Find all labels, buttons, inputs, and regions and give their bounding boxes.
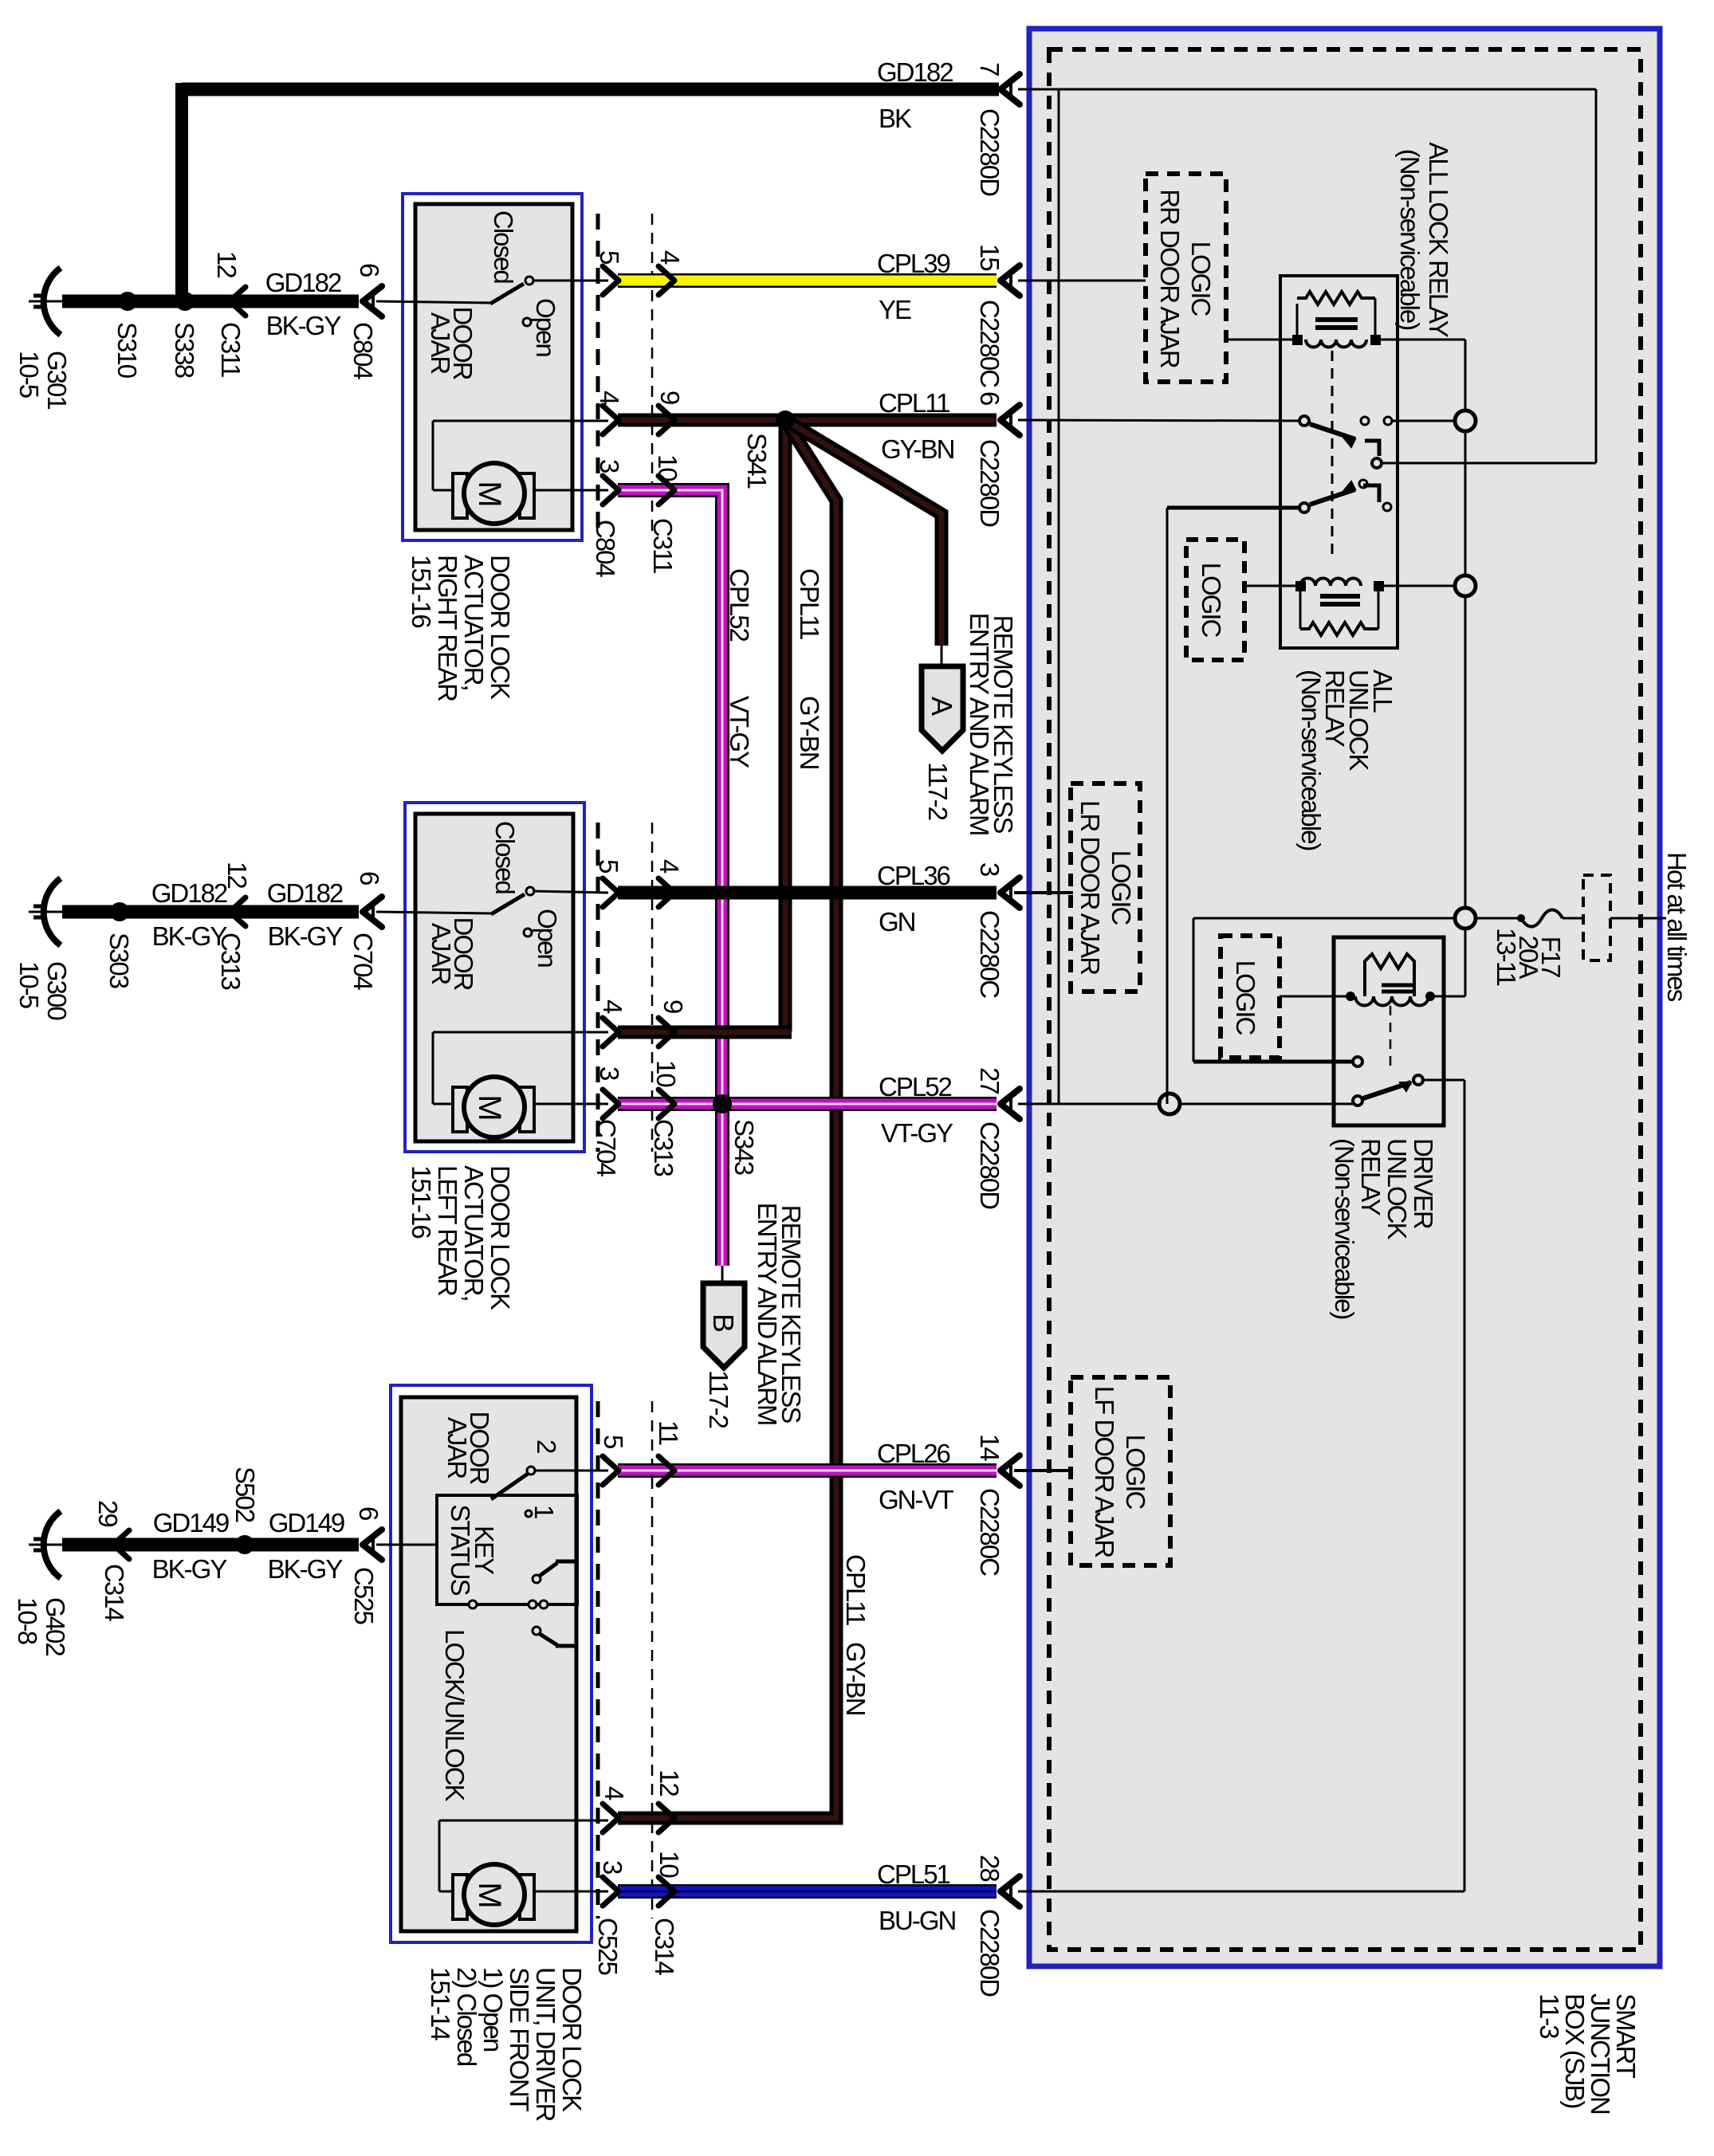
svg-text:C313: C313: [649, 1119, 678, 1176]
svg-text:AJAR: AJAR: [427, 923, 456, 985]
svg-text:BK-GY: BK-GY: [268, 1554, 344, 1584]
svg-text:C2280C: C2280C: [975, 1488, 1004, 1576]
svg-text:C2280C: C2280C: [975, 910, 1004, 998]
svg-text:1: 1: [529, 1505, 559, 1518]
svg-text:S343: S343: [729, 1119, 759, 1175]
svg-text:C2280C: C2280C: [975, 300, 1004, 387]
svg-text:4: 4: [595, 391, 624, 405]
svg-text:C311: C311: [216, 322, 246, 377]
svg-text:10-5: 10-5: [14, 961, 44, 1008]
svg-text:CPL39: CPL39: [877, 249, 950, 278]
svg-text:6: 6: [355, 263, 384, 277]
svg-text:C525: C525: [593, 1918, 623, 1975]
svg-text:151-14: 151-14: [426, 1967, 455, 2040]
svg-text:27: 27: [975, 1067, 1004, 1094]
svg-text:6: 6: [355, 871, 384, 885]
svg-text:BU-GN: BU-GN: [879, 1906, 956, 1935]
svg-text:DOOR LOCK: DOOR LOCK: [486, 555, 515, 700]
svg-text:VT-GY: VT-GY: [881, 1118, 953, 1148]
svg-text:Open: Open: [533, 909, 562, 967]
svg-text:BK: BK: [879, 104, 912, 133]
svg-text:G301: G301: [42, 351, 72, 409]
svg-text:S502: S502: [230, 1467, 260, 1522]
svg-text:B: B: [707, 1314, 740, 1332]
svg-text:GD182: GD182: [151, 878, 227, 908]
svg-text:GY-BN: GY-BN: [881, 434, 954, 464]
svg-text:28: 28: [975, 1855, 1004, 1881]
svg-text:LEFT REAR: LEFT REAR: [433, 1165, 462, 1296]
svg-text:RR DOOR AJAR: RR DOOR AJAR: [1155, 189, 1185, 368]
svg-text:UNLOCK: UNLOCK: [1382, 1138, 1412, 1240]
svg-text:GD182: GD182: [877, 57, 953, 87]
svg-text:LOCK/UNLOCK: LOCK/UNLOCK: [440, 1629, 470, 1802]
svg-text:CPL36: CPL36: [877, 861, 950, 890]
svg-text:12: 12: [222, 862, 252, 888]
svg-text:AJAR: AJAR: [426, 312, 455, 375]
svg-text:LOGIC: LOGIC: [1186, 242, 1216, 316]
svg-text:4: 4: [655, 250, 685, 265]
svg-text:CPL52: CPL52: [879, 1072, 952, 1102]
svg-text:117-2: 117-2: [704, 1370, 733, 1428]
svg-text:GY-BN: GY-BN: [795, 696, 824, 769]
svg-text:10-8: 10-8: [13, 1597, 42, 1644]
svg-text:1) Open: 1) Open: [478, 1967, 508, 2052]
svg-text:C314: C314: [650, 1918, 679, 1976]
svg-text:2: 2: [532, 1439, 561, 1453]
svg-text:9: 9: [658, 999, 688, 1013]
svg-text:GN-VT: GN-VT: [879, 1485, 954, 1514]
svg-text:CPL51: CPL51: [877, 1860, 950, 1889]
svg-text:S310: S310: [112, 322, 142, 379]
svg-text:5: 5: [595, 250, 624, 264]
svg-text:(Non-serviceable): (Non-serviceable): [1296, 670, 1326, 850]
svg-text:15: 15: [975, 244, 1004, 270]
svg-text:12: 12: [655, 1769, 684, 1796]
svg-text:10-5: 10-5: [14, 351, 44, 398]
svg-text:C314: C314: [100, 1564, 129, 1622]
svg-text:C2280D: C2280D: [975, 1909, 1004, 1997]
svg-text:2) Closed: 2) Closed: [452, 1967, 482, 2066]
svg-text:CPL11: CPL11: [879, 388, 949, 418]
svg-text:4: 4: [600, 1786, 629, 1801]
svg-text:C2280D: C2280D: [975, 108, 1004, 196]
svg-text:M: M: [472, 481, 507, 505]
svg-text:10: 10: [655, 1851, 684, 1878]
svg-text:YE: YE: [879, 295, 911, 324]
svg-text:151-16: 151-16: [407, 555, 436, 627]
svg-text:BK-GY: BK-GY: [152, 1554, 228, 1584]
svg-text:C311: C311: [648, 518, 678, 573]
svg-text:A: A: [926, 697, 958, 716]
svg-text:Closed: Closed: [489, 210, 518, 283]
svg-text:C2280D: C2280D: [975, 1121, 1004, 1209]
svg-text:C313: C313: [216, 933, 246, 990]
svg-text:DOOR LOCK: DOOR LOCK: [486, 1165, 515, 1310]
svg-text:BK-GY: BK-GY: [268, 921, 344, 951]
svg-text:ENTRY AND ALARM: ENTRY AND ALARM: [753, 1203, 782, 1425]
svg-text:DRIVER: DRIVER: [1409, 1138, 1438, 1229]
svg-text:Closed: Closed: [490, 821, 520, 893]
svg-text:151-16: 151-16: [407, 1165, 436, 1238]
svg-text:RIGHT REAR: RIGHT REAR: [433, 555, 462, 701]
svg-text:11-3: 11-3: [1535, 1993, 1564, 2038]
svg-text:DOOR LOCK: DOOR LOCK: [557, 1967, 587, 2112]
svg-text:GD182: GD182: [267, 878, 343, 908]
svg-text:SIDE FRONT: SIDE FRONT: [505, 1967, 534, 2112]
svg-text:G300: G300: [42, 961, 72, 1020]
svg-text:3: 3: [595, 1066, 624, 1080]
svg-text:S338: S338: [170, 322, 199, 378]
svg-text:(Non-serviceable): (Non-serviceable): [1330, 1138, 1359, 1318]
svg-text:3: 3: [598, 1860, 627, 1874]
svg-text:LF DOOR AJAR: LF DOOR AJAR: [1090, 1386, 1119, 1558]
svg-text:11: 11: [654, 1420, 683, 1445]
svg-text:4: 4: [598, 999, 627, 1014]
svg-text:13-11: 13-11: [1492, 928, 1521, 986]
svg-text:117-2: 117-2: [923, 762, 953, 820]
svg-text:M: M: [472, 1094, 507, 1119]
svg-text:5: 5: [594, 859, 623, 873]
svg-text:7: 7: [975, 62, 1004, 76]
svg-text:GN: GN: [879, 907, 915, 937]
svg-text:C704: C704: [348, 933, 378, 991]
svg-text:4: 4: [655, 859, 684, 874]
svg-text:C525: C525: [349, 1567, 379, 1624]
svg-text:C804: C804: [348, 322, 378, 380]
svg-text:LOGIC: LOGIC: [1231, 960, 1260, 1035]
svg-text:BK-GY: BK-GY: [266, 311, 342, 340]
svg-text:3: 3: [975, 862, 1004, 876]
svg-text:ALL LOCK RELAY: ALL LOCK RELAY: [1424, 142, 1453, 337]
svg-text:C704: C704: [592, 1119, 621, 1177]
svg-text:GD149: GD149: [153, 1508, 229, 1537]
svg-text:S303: S303: [104, 933, 134, 988]
svg-text:10: 10: [651, 1060, 681, 1087]
svg-text:UNIT, DRIVER: UNIT, DRIVER: [531, 1967, 560, 2122]
svg-text:LOGIC: LOGIC: [1121, 1435, 1150, 1510]
svg-text:12: 12: [212, 251, 242, 277]
svg-text:C804: C804: [591, 520, 620, 578]
svg-text:GD149: GD149: [269, 1508, 344, 1537]
svg-text:6: 6: [975, 391, 1004, 405]
svg-text:LOGIC: LOGIC: [1197, 563, 1226, 638]
svg-text:C2280D: C2280D: [975, 439, 1004, 527]
svg-text:Open: Open: [531, 298, 560, 356]
svg-text:G402: G402: [41, 1597, 70, 1655]
svg-text:CPL11: CPL11: [841, 1554, 871, 1625]
svg-text:ACTUATOR,: ACTUATOR,: [459, 1165, 489, 1301]
svg-text:STATUS: STATUS: [446, 1504, 475, 1595]
svg-text:GY-BN: GY-BN: [841, 1642, 871, 1715]
svg-text:29: 29: [93, 1500, 123, 1526]
svg-text:5: 5: [599, 1435, 628, 1448]
svg-text:RELAY: RELAY: [1356, 1138, 1386, 1216]
svg-text:9: 9: [655, 391, 685, 404]
svg-text:6: 6: [354, 1506, 383, 1520]
svg-text:M: M: [472, 1882, 507, 1907]
svg-text:LR DOOR AJAR: LR DOOR AJAR: [1075, 800, 1105, 975]
svg-text:14: 14: [975, 1434, 1004, 1461]
svg-text:S341: S341: [742, 433, 772, 489]
svg-text:AJAR: AJAR: [442, 1417, 472, 1479]
svg-text:ACTUATOR,: ACTUATOR,: [459, 555, 489, 690]
svg-text:(Non-serviceable): (Non-serviceable): [1395, 149, 1425, 329]
svg-text:ENTRY AND ALARM: ENTRY AND ALARM: [965, 613, 994, 835]
svg-text:LOGIC: LOGIC: [1107, 850, 1136, 925]
svg-text:Hot at all times: Hot at all times: [1662, 852, 1692, 1002]
svg-text:3: 3: [595, 459, 624, 473]
svg-text:CPL26: CPL26: [877, 1439, 950, 1468]
svg-text:GD182: GD182: [265, 268, 341, 297]
svg-text:CPL11: CPL11: [795, 568, 824, 639]
svg-text:10: 10: [653, 454, 682, 481]
